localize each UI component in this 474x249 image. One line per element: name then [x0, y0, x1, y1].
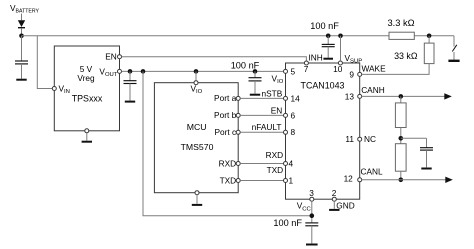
- svg-text:4: 4: [289, 158, 294, 168]
- svg-text:EN: EN: [271, 106, 283, 116]
- svg-text:8: 8: [291, 127, 296, 137]
- svg-text:nSTB: nSTB: [262, 89, 283, 99]
- ground: under VOUT cap: [125, 101, 135, 103]
- pin 12 CANL of TCAN: [358, 178, 362, 182]
- svg-text:nFAULT: nFAULT: [252, 122, 282, 132]
- node: 5V rail to VIO cap: [253, 69, 258, 74]
- svg-text:6: 6: [291, 110, 296, 120]
- pin 5 VIO of TCAN: [284, 69, 288, 73]
- wire: VSUP pin drop: [340, 36, 342, 61]
- svg-text:33 kΩ: 33 kΩ: [394, 51, 418, 61]
- wire: Port c to nFAULT (pin 8): [240, 131, 283, 133]
- wire: VCC pin lead: [311, 201, 313, 222]
- IC U1 TPSxxx (5V regulator) box: [54, 46, 119, 131]
- wire: battery rail (VSUP net): [22, 35, 390, 37]
- node: VCC rail junction: [310, 213, 315, 218]
- svg-text:VIO: VIO: [272, 74, 284, 86]
- svg-text:100 nF: 100 nF: [310, 21, 339, 31]
- wire: TXD to pin 1: [240, 180, 283, 182]
- capacitor: battery bulk cap: [15, 36, 28, 79]
- svg-text:VIN: VIN: [59, 84, 70, 96]
- resistor 3.3k (series to switch): [389, 32, 414, 39]
- wire: MCU VIO drop: [195, 71, 197, 80]
- pin 1 TXD of TCAN: [284, 179, 288, 183]
- IC U3 TCAN1043 box: [286, 63, 360, 199]
- wire: 5V VOUT rail: [122, 70, 284, 72]
- ground: under MCU: [192, 204, 202, 206]
- svg-text:WAKE: WAKE: [362, 64, 387, 74]
- node: rail to VSUP pin: [338, 34, 343, 39]
- svg-text:3: 3: [309, 188, 314, 198]
- capacitor: VSUP 100nF cap: [322, 36, 335, 58]
- node: 5V rail to bypass cap: [128, 69, 133, 74]
- pin 11 NC of TCAN: [358, 137, 362, 141]
- svg-text:CANH: CANH: [361, 85, 385, 95]
- node: battery junction: [19, 34, 24, 39]
- svg-text:12: 12: [344, 174, 354, 184]
- svg-text:VSUP: VSUP: [345, 53, 363, 65]
- pin 14 nSTB of TCAN: [284, 96, 288, 100]
- ground: under split cap: [421, 168, 431, 170]
- svg-text:14: 14: [291, 93, 301, 103]
- svg-text:TCAN1043: TCAN1043: [301, 80, 345, 90]
- ground: under TCAN GND pin: [329, 209, 339, 211]
- pin 10 VSUP of TCAN: [338, 61, 342, 65]
- svg-text:10: 10: [333, 64, 343, 74]
- ground: under VIO cap: [250, 94, 260, 96]
- pin 2 GND of TCAN: [332, 197, 336, 201]
- pin GND of MCU: [195, 191, 199, 195]
- capacitor: split termination cap: [420, 138, 433, 167]
- wire: 33k bottom to WAKE (pin 9): [362, 64, 429, 75]
- wire: battery rail to switch: [414, 35, 454, 37]
- svg-text:100 nF: 100 nF: [231, 61, 260, 71]
- pin GND of TPSxxx: [85, 129, 89, 133]
- svg-text:EN: EN: [105, 52, 117, 62]
- svg-text:9: 9: [349, 70, 354, 80]
- svg-text:5: 5: [291, 66, 296, 76]
- wire: drop to VIN: [37, 36, 52, 89]
- pin 13 CANH of TCAN: [358, 94, 362, 98]
- pin VIO of MCU: [194, 81, 198, 85]
- svg-text:7: 7: [304, 64, 309, 74]
- svg-text:Vreg: Vreg: [77, 73, 95, 83]
- svg-text:1: 1: [289, 175, 294, 185]
- wire: 33k top lead: [428, 36, 430, 43]
- svg-text:11: 11: [345, 134, 354, 144]
- pin VOUT of TPSxxx: [118, 69, 122, 73]
- svg-text:RXD: RXD: [219, 158, 237, 168]
- pin 3 VCC of TCAN: [310, 197, 314, 201]
- pin RXD of MCU: [236, 162, 240, 166]
- svg-text:VBATTERY: VBATTERY: [10, 3, 40, 15]
- svg-text:MCU: MCU: [187, 122, 207, 132]
- diode D1 (polarity protection): [18, 20, 25, 36]
- ground: under VCC cap: [306, 244, 318, 246]
- pin 4 RXD of TCAN: [284, 162, 288, 166]
- svg-text:TMS570: TMS570: [181, 142, 214, 152]
- resistor 33k (WAKE pull-up): [424, 43, 434, 64]
- svg-text:13: 13: [345, 91, 355, 101]
- pin TXD of MCU: [236, 179, 240, 183]
- wire: midpoint to split cap: [401, 137, 427, 139]
- svg-text:100 nF: 100 nF: [273, 218, 302, 228]
- wire: CANH to R term lead: [400, 96, 402, 103]
- node: rail to VSUP cap: [326, 34, 331, 39]
- switch S1 (wake switch): [452, 36, 457, 60]
- node: CANH termination tap: [399, 94, 404, 99]
- pin 7 INH of TCAN: [304, 61, 308, 65]
- pin Port a of MCU: [236, 96, 240, 100]
- wire: RXD to pin 4: [240, 163, 283, 165]
- node: after 3.3k resistor: [427, 34, 432, 39]
- ground: under VSUP cap: [323, 58, 333, 60]
- wire: MCU GND lead: [196, 195, 198, 204]
- svg-text:VCC: VCC: [297, 201, 312, 213]
- svg-text:Port b: Port b: [214, 110, 237, 120]
- svg-text:TXD: TXD: [267, 165, 284, 175]
- svg-text:2: 2: [332, 188, 337, 198]
- svg-text:RXD: RXD: [266, 150, 284, 160]
- ground: under battery cap: [16, 79, 26, 81]
- node: 5V rail to VCC branch: [141, 69, 146, 74]
- ground: under switch: [448, 60, 459, 62]
- node: split termination midpoint: [399, 136, 404, 141]
- wire: VBATTERY lead: [21, 14, 23, 21]
- svg-text:Port c: Port c: [215, 127, 237, 137]
- wire: TCAN GND lead: [333, 201, 335, 209]
- svg-text:TPSxxx: TPSxxx: [72, 93, 103, 103]
- svg-text:Port a: Port a: [214, 93, 237, 103]
- pin Port c of MCU: [236, 130, 240, 134]
- resistor: CAN termination upper: [395, 103, 406, 128]
- svg-text:3.3 kΩ: 3.3 kΩ: [387, 18, 414, 28]
- capacitor: VCC 100nF cap: [305, 222, 318, 243]
- wire: lower R to CANL: [400, 171, 402, 180]
- node: CANL termination tap: [399, 178, 404, 183]
- svg-text:VOUT: VOUT: [99, 66, 117, 78]
- pin 9 WAKE of TCAN: [358, 72, 362, 76]
- wire: TPS EN to TCAN INH (pin 7): [122, 57, 307, 61]
- capacitor: VIO 100nF cap: [249, 71, 262, 93]
- arrow: CANL to bus: [445, 177, 453, 183]
- pin VIN of TPSxxx: [52, 87, 56, 91]
- pin 8 nFAULT of TCAN: [284, 130, 288, 134]
- svg-text:NC: NC: [364, 134, 376, 144]
- wire: 5V branch down to VCC rail: [143, 71, 312, 215]
- wire: CANH bus: [362, 95, 445, 97]
- capacitor: VOUT bypass cap: [124, 71, 137, 100]
- wire: TPS GND lead: [86, 133, 88, 141]
- wire: CANL bus: [362, 179, 446, 181]
- wire: upper R to mid node: [400, 128, 402, 144]
- pin EN of TPSxxx: [118, 55, 122, 59]
- IC U2 MCU TMS570 box: [154, 83, 238, 193]
- svg-text:VIO: VIO: [191, 84, 203, 96]
- resistor: CAN termination lower: [395, 144, 406, 172]
- svg-text:INH: INH: [309, 53, 323, 63]
- pin 6 EN of TCAN: [284, 113, 288, 117]
- wire: Port a to nSTB (pin 14): [240, 97, 283, 99]
- node: 5V rail to MCU VIO: [194, 69, 199, 74]
- ground: under TPSxxx: [82, 141, 92, 143]
- svg-text:TXD: TXD: [220, 175, 237, 185]
- pin Port b of MCU: [236, 113, 240, 117]
- arrow: CANH to bus: [444, 93, 452, 99]
- wire: Port b to EN (pin 6): [240, 114, 283, 116]
- svg-text:CANL: CANL: [361, 166, 384, 176]
